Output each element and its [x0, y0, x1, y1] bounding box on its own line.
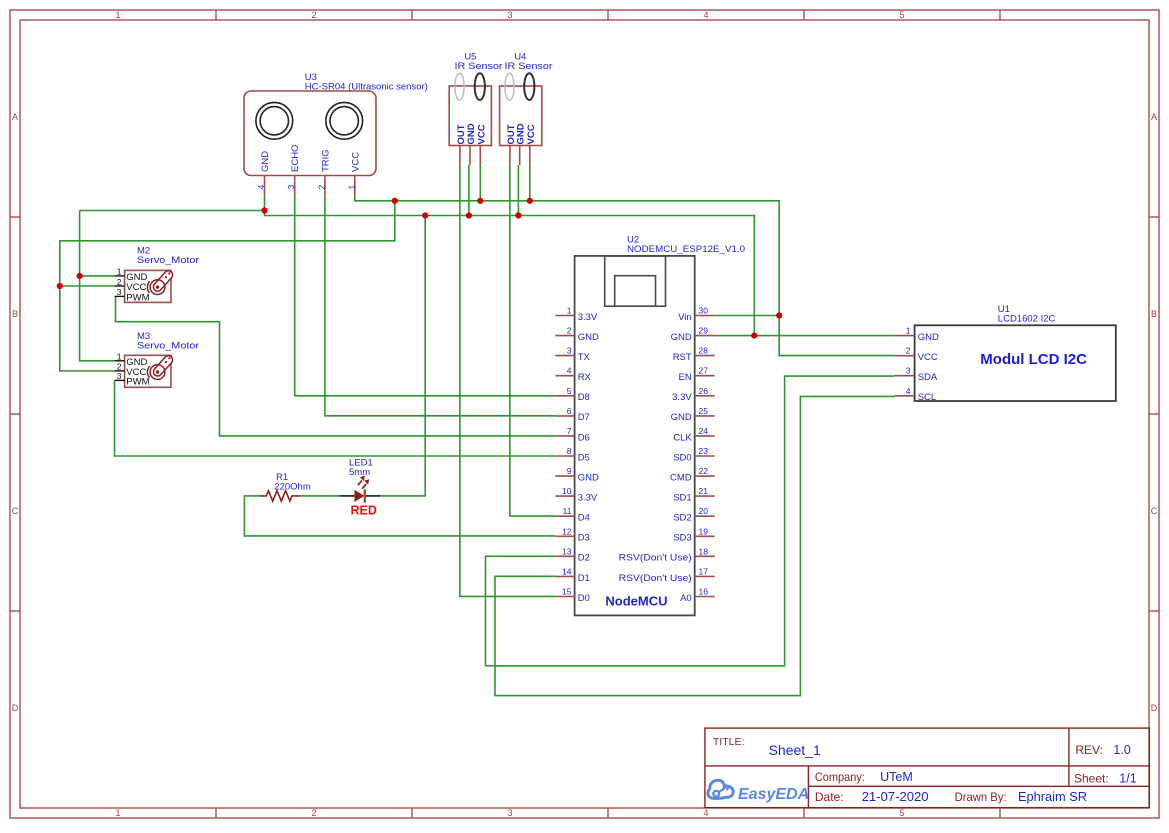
svg-text:2: 2 — [311, 10, 316, 20]
svg-text:SD0: SD0 — [673, 452, 691, 463]
svg-text:3: 3 — [507, 808, 512, 818]
svg-text:5: 5 — [899, 808, 904, 818]
svg-text:C: C — [1151, 506, 1158, 516]
svg-text:IR Sensor: IR Sensor — [505, 61, 553, 72]
wire net R1 to LED — [300, 495, 340, 497]
svg-text:D: D — [12, 703, 19, 713]
svg-text:4: 4 — [703, 10, 708, 20]
junction dot — [527, 198, 533, 204]
svg-text:23: 23 — [699, 446, 709, 456]
svg-text:1/1: 1/1 — [1119, 772, 1136, 786]
svg-text:GND: GND — [260, 151, 271, 172]
svg-text:D0: D0 — [578, 593, 590, 604]
wire net TRIG to D7 — [325, 196, 556, 416]
svg-text:19: 19 — [699, 526, 709, 536]
pin 15 D0 — [555, 596, 574, 598]
svg-text:RSV(Don't Use): RSV(Don't Use) — [619, 553, 692, 564]
LCD module U1 — [895, 325, 1116, 403]
resistor R1 — [260, 491, 300, 501]
wire net M2 PWM to D6 — [116, 296, 556, 436]
svg-text:GND: GND — [578, 332, 599, 343]
frame row tick — [10, 610, 20, 612]
svg-text:B: B — [12, 309, 18, 319]
wire net M3 PWM to D5 — [115, 380, 556, 456]
svg-text:A0: A0 — [680, 593, 692, 604]
wire net R1 to D3 — [244, 496, 555, 536]
wire net ECHO to D8 — [295, 196, 556, 396]
pin 30 Vin — [695, 315, 715, 317]
svg-text:C: C — [12, 506, 19, 516]
svg-text:CLK: CLK — [673, 432, 692, 443]
svg-text:5: 5 — [567, 386, 572, 396]
svg-text:22: 22 — [699, 466, 709, 476]
svg-text:1: 1 — [346, 185, 356, 190]
pin 5 D8 — [555, 395, 574, 397]
servo motor M2 — [115, 267, 175, 304]
title block — [705, 728, 1149, 808]
svg-text:11: 11 — [563, 506, 572, 516]
junction dot — [466, 212, 472, 218]
pin 27 EN — [695, 375, 715, 377]
svg-text:4: 4 — [703, 808, 708, 818]
svg-text:15: 15 — [562, 587, 572, 597]
junction dot — [77, 273, 83, 279]
svg-text:220Ohm: 220Ohm — [274, 482, 311, 493]
svg-text:D: D — [1151, 703, 1158, 713]
servo motor M3 — [115, 352, 175, 388]
pin 2 GND — [555, 335, 574, 337]
frame column tick — [411, 10, 413, 20]
pin 20 SD2 — [695, 515, 715, 517]
wire net U4 OUT to D4 — [510, 165, 556, 516]
svg-text:Ephraim SR: Ephraim SR — [1018, 790, 1087, 804]
svg-text:17: 17 — [699, 566, 709, 576]
LED LED1 — [340, 476, 381, 503]
svg-text:1: 1 — [567, 306, 572, 316]
svg-text:SD2: SD2 — [673, 513, 691, 524]
svg-text:RST: RST — [673, 352, 692, 363]
svg-text:16: 16 — [699, 587, 709, 597]
frame row tick — [10, 216, 20, 218]
pin 19 SD3 — [695, 535, 715, 537]
wire GND net: main run — [80, 211, 755, 336]
svg-text:HC-SR04 (Ultrasonic sensor): HC-SR04 (Ultrasonic sensor) — [305, 82, 428, 93]
svg-text:3.3V: 3.3V — [672, 392, 692, 403]
svg-text:EasyEDA: EasyEDA — [738, 786, 809, 803]
pin 6 D7 — [555, 415, 574, 417]
wire net D2 to SDA — [486, 376, 895, 666]
svg-text:SD3: SD3 — [673, 533, 691, 544]
svg-text:18: 18 — [699, 546, 709, 556]
pin 4 SCL — [895, 395, 915, 397]
svg-text:D3: D3 — [578, 533, 590, 544]
pin 4 RX — [555, 375, 574, 377]
pin 29 GND — [695, 335, 715, 337]
junction dot — [751, 333, 757, 339]
pin 26 3.3V — [695, 395, 715, 397]
svg-text:VCC: VCC — [126, 282, 146, 293]
pin 14 D1 — [555, 575, 574, 577]
svg-text:VCC: VCC — [350, 152, 361, 172]
svg-text:4: 4 — [906, 386, 911, 396]
frame column tick — [215, 10, 217, 20]
pin 2 VCC — [895, 355, 915, 357]
svg-text:ECHO: ECHO — [290, 145, 301, 172]
pin 1 GND — [895, 335, 915, 337]
pin 21 SD1 — [695, 495, 715, 497]
svg-text:27: 27 — [699, 366, 709, 376]
svg-text:1: 1 — [117, 352, 122, 362]
svg-text:TITLE:: TITLE: — [713, 736, 745, 748]
pin 22 CMD — [695, 475, 715, 477]
svg-text:1: 1 — [906, 326, 911, 336]
pin 13 D2 — [555, 555, 574, 557]
svg-text:PWM: PWM — [126, 292, 149, 303]
IR sensor U4 — [500, 73, 542, 165]
svg-text:2: 2 — [311, 808, 316, 818]
frame column tick — [999, 10, 1001, 20]
IR sensor U5 — [449, 73, 491, 165]
svg-text:D4: D4 — [578, 513, 590, 524]
pin 3 SDA — [895, 375, 915, 377]
svg-text:1.0: 1.0 — [1113, 743, 1130, 757]
svg-text:Drawn By:: Drawn By: — [955, 790, 1007, 804]
svg-text:29: 29 — [699, 326, 709, 336]
svg-text:12: 12 — [562, 526, 572, 536]
svg-text:SCL: SCL — [918, 392, 936, 403]
pin 12 D3 — [555, 535, 574, 537]
svg-text:2: 2 — [906, 346, 911, 356]
svg-text:GND: GND — [671, 332, 692, 343]
wire VCC net: U5 VCC drop — [479, 165, 481, 201]
svg-text:4: 4 — [256, 185, 266, 190]
wire VCC net: U3 VCC to LCD VCC — [355, 196, 895, 356]
svg-text:3: 3 — [117, 287, 122, 297]
svg-text:25: 25 — [699, 406, 709, 416]
svg-text:Modul LCD I2C: Modul LCD I2C — [980, 351, 1087, 368]
wire GND net: NodeMCU GND to LCD GND — [715, 335, 895, 337]
pin 28 RST — [695, 355, 715, 357]
svg-text:4: 4 — [567, 366, 572, 376]
svg-text:24: 24 — [699, 426, 709, 436]
pin 16 A0 — [695, 596, 715, 598]
svg-text:GND: GND — [578, 473, 599, 484]
svg-text:D2: D2 — [578, 553, 590, 564]
svg-text:26: 26 — [699, 386, 709, 396]
wire VCC net: branch to servo VCC pins — [60, 201, 395, 371]
wire GND net: U4 GND drop — [517, 165, 519, 216]
svg-text:20: 20 — [699, 506, 709, 516]
wire GND net: U5 GND drop — [468, 165, 470, 216]
svg-text:VCC: VCC — [476, 124, 487, 144]
EasyEDA logo — [708, 780, 809, 803]
svg-text:D8: D8 — [578, 392, 590, 403]
svg-text:CMD: CMD — [670, 473, 692, 484]
frame column tick — [803, 10, 805, 20]
svg-text:3: 3 — [507, 10, 512, 20]
junction dot — [57, 283, 63, 289]
wire GND net: U3 GND drop — [264, 196, 266, 211]
svg-text:VCC: VCC — [918, 352, 938, 363]
svg-text:PWM: PWM — [126, 376, 149, 387]
svg-text:1: 1 — [115, 10, 120, 20]
svg-text:D1: D1 — [578, 573, 590, 584]
svg-text:RX: RX — [578, 372, 592, 383]
junction dot — [515, 212, 521, 218]
pin 11 D4 — [555, 515, 574, 517]
svg-text:9: 9 — [567, 466, 572, 476]
svg-text:1: 1 — [117, 267, 122, 277]
svg-text:TX: TX — [578, 352, 591, 363]
svg-text:7: 7 — [567, 426, 572, 436]
pin 9 GND — [555, 475, 574, 477]
svg-text:REV:: REV: — [1075, 743, 1103, 757]
junction dot — [422, 212, 428, 218]
pin 3 TX — [555, 355, 574, 357]
pin 8 D5 — [555, 455, 574, 457]
svg-text:2: 2 — [567, 326, 572, 336]
svg-text:2: 2 — [117, 277, 122, 287]
svg-text:3.3V: 3.3V — [578, 312, 598, 323]
svg-text:8: 8 — [567, 446, 572, 456]
svg-text:6: 6 — [567, 406, 572, 416]
frame row tick — [10, 413, 20, 415]
svg-text:Servo_Motor: Servo_Motor — [137, 341, 199, 352]
svg-text:2: 2 — [316, 185, 326, 190]
svg-text:Date:: Date: — [815, 790, 844, 804]
pin 7 D6 — [555, 435, 574, 437]
junction dot — [776, 312, 782, 318]
wire net D1 to SCL — [495, 396, 895, 695]
svg-text:GND: GND — [671, 412, 692, 423]
svg-text:14: 14 — [562, 566, 572, 576]
svg-text:D5: D5 — [578, 452, 590, 463]
svg-text:5mm: 5mm — [349, 467, 370, 478]
svg-text:NodeMCU: NodeMCU — [605, 594, 667, 609]
wire GND net: drop to servo GND pins — [80, 211, 115, 361]
pin 23 SD0 — [695, 455, 715, 457]
wire VCC net: NodeMCU Vin branch — [715, 315, 780, 317]
wire net U5 OUT to D0 — [460, 165, 556, 596]
svg-text:UTeM: UTeM — [880, 770, 913, 784]
svg-text:RED: RED — [351, 503, 377, 517]
svg-text:GND: GND — [918, 332, 939, 343]
svg-text:28: 28 — [699, 346, 709, 356]
svg-text:A: A — [1151, 112, 1157, 122]
svg-text:A: A — [12, 112, 18, 122]
svg-text:D6: D6 — [578, 432, 590, 443]
svg-text:D7: D7 — [578, 412, 590, 423]
svg-text:Company:: Company: — [815, 770, 865, 784]
svg-text:NODEMCU_ESP12E_V1.0: NODEMCU_ESP12E_V1.0 — [627, 244, 745, 255]
frame column tick — [607, 10, 609, 20]
pin 18 RSV(Don't Use) — [695, 555, 715, 557]
microcontroller U2 NodeMCU — [555, 256, 714, 616]
pin 24 CLK — [695, 435, 715, 437]
svg-text:1: 1 — [115, 808, 120, 818]
svg-text:TRIG: TRIG — [320, 149, 331, 172]
svg-text:3: 3 — [906, 366, 911, 376]
svg-text:30: 30 — [699, 306, 709, 316]
ultrasonic sensor U3 — [244, 91, 376, 196]
svg-text:3.3V: 3.3V — [578, 493, 598, 504]
wire GND net: LED cathode drop — [380, 216, 425, 496]
svg-text:3: 3 — [117, 371, 122, 381]
svg-text:VCC: VCC — [526, 124, 537, 144]
svg-text:3: 3 — [567, 346, 572, 356]
pin 10 3.3V — [555, 495, 574, 497]
svg-text:Servo_Motor: Servo_Motor — [137, 255, 199, 266]
svg-text:EN: EN — [678, 372, 691, 383]
svg-text:Vin: Vin — [678, 312, 692, 323]
wire GND net: M2 GND branch — [80, 275, 115, 277]
pin 1 3.3V — [555, 315, 574, 317]
junction dot — [477, 198, 483, 204]
svg-text:Sheet_1: Sheet_1 — [769, 742, 821, 758]
svg-text:LCD1602 I2C: LCD1602 I2C — [998, 314, 1056, 325]
svg-text:IR Sensor: IR Sensor — [455, 61, 503, 72]
svg-text:13: 13 — [562, 546, 572, 556]
wire VCC net: M2 VCC branch — [60, 285, 115, 287]
svg-text:2: 2 — [117, 362, 122, 372]
junction dot — [261, 207, 267, 213]
junction dot — [392, 198, 398, 204]
wire VCC net: U4 VCC drop — [529, 165, 531, 201]
svg-text:RSV(Don't Use): RSV(Don't Use) — [619, 573, 692, 584]
svg-text:SD1: SD1 — [673, 493, 691, 504]
svg-text:SDA: SDA — [918, 372, 938, 383]
svg-text:5: 5 — [899, 10, 904, 20]
pin 17 RSV(Don't Use) — [695, 575, 715, 577]
svg-text:21: 21 — [699, 486, 709, 496]
pin 25 GND — [695, 415, 715, 417]
svg-text:3: 3 — [286, 185, 296, 190]
svg-text:B: B — [1151, 309, 1157, 319]
svg-text:10: 10 — [562, 486, 572, 496]
svg-text:21-07-2020: 21-07-2020 — [862, 790, 929, 804]
svg-text:Sheet:: Sheet: — [1074, 772, 1109, 786]
